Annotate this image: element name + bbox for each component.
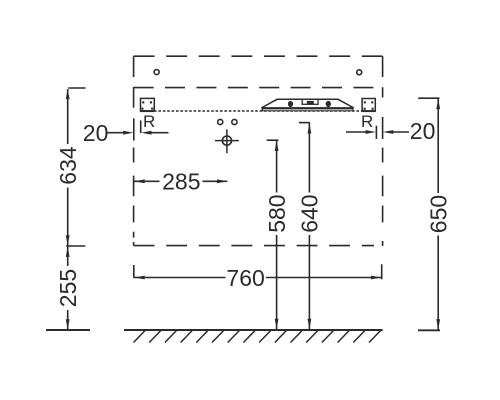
svg-text:20: 20 [83, 120, 109, 146]
dimension 580 [267, 140, 279, 329]
rail left bolt [288, 101, 293, 107]
dimension 760 [134, 264, 382, 279]
dimension 255 [46, 246, 90, 330]
faucet hole right [232, 119, 237, 124]
drain centre mark [215, 129, 239, 153]
cabinet outline right edge (dashed segments) [382, 56, 384, 246]
right top screw hole [357, 70, 362, 75]
floor hatching [134, 331, 381, 343]
faucet hole left [218, 119, 223, 124]
svg-text:634: 634 [55, 146, 81, 185]
left mounting bracket [141, 98, 155, 111]
rail center notch [302, 99, 318, 104]
svg-text:R: R [143, 112, 155, 131]
floor line [124, 329, 383, 331]
wall rail profile (basin bracket) [261, 99, 353, 111]
right mounting bracket [362, 99, 375, 112]
dimension 20 left [108, 118, 169, 140]
svg-text:255: 255 [55, 269, 81, 307]
dimension 650 [418, 98, 440, 330]
svg-text:580: 580 [264, 194, 290, 232]
svg-text:285: 285 [162, 169, 200, 195]
dimension 640 [299, 123, 311, 330]
wall fixing dotted line [154, 110, 362, 112]
cabinet outline left edge (dashed segments) [133, 56, 135, 245]
dimension 285 [134, 179, 227, 183]
svg-text:R: R [361, 112, 373, 131]
rail right bolt [326, 101, 331, 107]
dimension 20 right [346, 117, 409, 139]
svg-text:640: 640 [297, 194, 323, 232]
cabinet outline top edge (dashed) [134, 55, 383, 57]
svg-text:650: 650 [425, 195, 451, 233]
cabinet outline bottom edge (dashed) [134, 245, 374, 247]
left top screw hole [154, 70, 159, 75]
svg-text:20: 20 [410, 118, 436, 144]
dimension 634 [66, 88, 86, 246]
mounting rail line (dashed) [134, 87, 374, 89]
svg-text:760: 760 [226, 265, 264, 291]
